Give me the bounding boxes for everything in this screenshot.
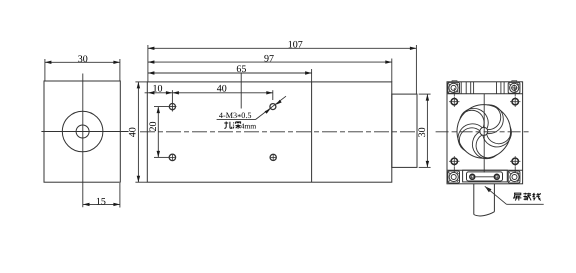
dim 40 left bottom extension [135, 181, 147, 183]
dim 15 left arrow [83, 203, 90, 206]
hole top-right M3 [270, 104, 276, 110]
dim 10-40 line [145, 92, 273, 94]
svg-text:40: 40 [217, 83, 227, 94]
bottom-left screw outer circle [449, 172, 458, 181]
terminal slot line [476, 176, 494, 178]
dim 97 right arrow [385, 60, 392, 63]
dim 40 left up arrow [137, 82, 140, 89]
dim 20 bottom extension [154, 156, 169, 158]
leader arrow lower pointing at hole [265, 109, 271, 114]
label 孔深4mm (hole depth 4mm) [224, 122, 240, 129]
shield wire leader diagonal [485, 186, 507, 204]
horizontal dash-dot centerline rear view [436, 131, 532, 133]
shield wire leader arrow [485, 186, 492, 192]
svg-text:10: 10 [153, 83, 163, 94]
rear view top band bottom edge [447, 93, 523, 95]
top-right screw outer circle [510, 83, 519, 92]
top-right screw cross [511, 87, 518, 89]
dim 65 right extension [311, 69, 313, 82]
terminal screw left [470, 174, 475, 179]
top-left screw inner circle [451, 85, 456, 90]
fan blades (5 swirl arcs) [482, 126, 514, 149]
svg-text:20: 20 [148, 122, 159, 132]
dim 20 top extension through hole [154, 106, 176, 108]
corner hole bottom-left cross [449, 160, 459, 162]
corner hole top-left [451, 99, 457, 105]
dim 10 left arrow [148, 91, 155, 94]
dim 40 left top extension [135, 81, 147, 83]
cable left edge [473, 184, 475, 215]
dim 107 right arrow [410, 47, 417, 50]
dim 107 line [148, 47, 417, 49]
cable right edge [493, 184, 495, 212]
dim 30 shaft top extension [419, 93, 431, 95]
dim 20 down arrow [157, 151, 160, 158]
terminal screw right square [496, 176, 498, 178]
corner hole bottom-right cross [510, 160, 520, 162]
dim 107 left arrow [148, 47, 155, 50]
svg-text:97: 97 [264, 53, 274, 64]
top-right screw corner hatch [509, 84, 511, 86]
dim 30 left arrow [45, 61, 52, 64]
shield wire leader underline [507, 203, 544, 205]
dim 40 left down arrow [137, 176, 140, 183]
left view vertical centerline [82, 74, 84, 208]
dim 30 line [45, 61, 120, 63]
left view bore inner circle [76, 125, 89, 138]
dim 30 left extension [44, 59, 46, 81]
dim 97 line [148, 61, 392, 63]
top-left screw corner hatch [449, 84, 451, 86]
bottom-right screw inner circle [512, 175, 517, 180]
svg-text:30: 30 [417, 127, 428, 137]
dim 97 right extension [391, 59, 393, 82]
left view horizontal centerline [41, 131, 128, 133]
dim 30 shaft down arrow [426, 161, 429, 168]
hole bottom-right M3 [270, 154, 276, 160]
dim 107 right extension [415, 45, 417, 94]
hole bottom-left cross [170, 156, 175, 158]
dim 30 right arrow [113, 61, 120, 64]
bottom-right screw outer circle [510, 172, 519, 181]
hole top-left M3 [169, 104, 175, 110]
dim 10 right arrow [166, 91, 173, 94]
dim 20 line [157, 107, 159, 158]
front view main body rect [147, 82, 391, 182]
dim 30 shaft line [426, 94, 428, 167]
hole bottom-right cross [271, 156, 276, 158]
dim 65 left arrow [148, 71, 155, 74]
dim 40 left arrow [172, 91, 179, 94]
top band divider lines [460, 82, 462, 94]
vertical line below 65 label [240, 73, 242, 109]
label 屏蔽线 (shielded wire) [513, 193, 541, 201]
top-left screw square [448, 82, 460, 93]
terminal block outer rect [463, 170, 508, 182]
bottom-left screw corner hatch [449, 172, 451, 174]
left view body rect 30x40 [44, 81, 120, 182]
cable break curve [474, 212, 495, 216]
dim 15 right extension [119, 183, 121, 208]
top-right screw square [508, 82, 520, 93]
corner hole bottom-right [512, 158, 518, 164]
terminal screw left square [471, 176, 473, 178]
front view step line at 65mm [311, 82, 313, 182]
hole bottom-left M3 [169, 154, 175, 160]
dim 30 shaft up arrow [426, 94, 429, 101]
svg-text:4mm: 4mm [241, 121, 257, 130]
dim 40 left line [137, 82, 139, 182]
corner hole top-left cross [449, 101, 459, 103]
rear view vertical centerline [483, 94, 485, 173]
bottom-left screw inner circle [451, 175, 456, 180]
rear view bottom band top edge [447, 169, 523, 171]
corner hole top-right cross [510, 101, 520, 103]
svg-text:40: 40 [128, 127, 139, 137]
tab above left screw [452, 81, 457, 82]
top-left screw outer circle [449, 83, 458, 92]
dim 15 right arrow [113, 203, 120, 206]
leader arrow upper pointing at hole [276, 100, 282, 105]
bottom-right screw corner hatch [509, 172, 511, 174]
corner hole bottom-left [451, 158, 457, 164]
left screw-hole connector top [453, 88, 455, 96]
dim 65 right arrow [305, 71, 312, 74]
dim 20 up arrow [157, 107, 160, 114]
dim 65 line [148, 72, 312, 74]
rear view plate outline [447, 82, 523, 184]
leader diagonal through hole [255, 96, 286, 119]
dim 30 right extension [119, 59, 121, 81]
bottom-left screw square [448, 171, 460, 183]
svg-text:15: 15 [96, 197, 106, 208]
left view boss outer circle [62, 111, 103, 152]
dim 40 right arrow [266, 91, 273, 94]
tab above right screw [512, 81, 517, 82]
left screw-hole connector bottom [453, 167, 455, 173]
terminal screw right [494, 174, 499, 179]
fan hub circle [480, 127, 488, 135]
terminal block inner rounded rect [467, 172, 503, 181]
leader underline [217, 119, 256, 121]
bottom-right screw square [508, 171, 520, 183]
right screw-hole connector top [514, 88, 516, 96]
horizontal dash-dot centerline middle view [140, 131, 418, 133]
fan housing outer circle [457, 105, 511, 159]
corner hole top-right [512, 99, 518, 105]
svg-text:30: 30 [78, 54, 88, 65]
front view shaft boss rect [392, 94, 417, 167]
hole1 center extension vertical [171, 90, 173, 111]
top-right screw inner circle [512, 85, 517, 90]
dim 97 left arrow [148, 60, 155, 63]
dim 30 shaft bottom extension [419, 166, 431, 168]
hole2 center extension vertical [272, 90, 274, 100]
right screw-hole connector bottom [514, 167, 516, 173]
dim 107/97/65 left extension [147, 45, 149, 82]
dim 15 line [83, 203, 120, 205]
svg-text:107: 107 [288, 39, 303, 50]
